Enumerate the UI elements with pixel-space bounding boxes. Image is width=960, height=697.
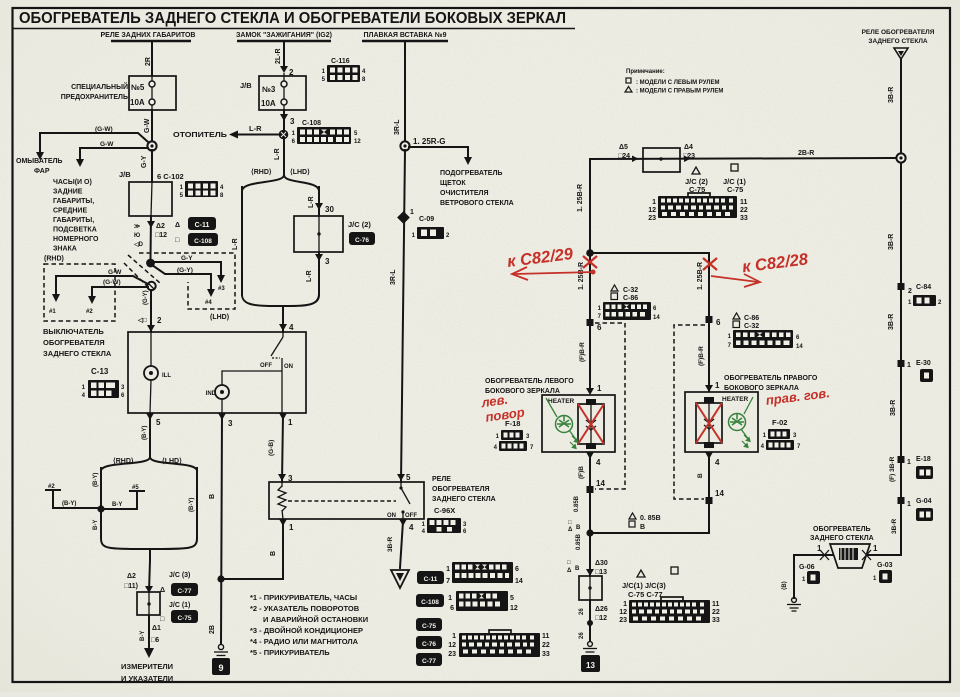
svg-text:(G-Y): (G-Y) [143, 290, 149, 305]
svg-text:◁□: ◁□ [137, 317, 147, 324]
svg-text:(F)B-R: (F)B-R [698, 346, 705, 366]
svg-text:6: 6 [716, 318, 721, 327]
svg-text:Δ1: Δ1 [152, 625, 161, 632]
svg-text:B: B [640, 524, 645, 531]
wire to #2 [92, 286, 148, 288]
svg-text:Δ26: Δ26 [595, 606, 608, 613]
svg-text:J/B: J/B [119, 170, 131, 179]
J/C(2)/J/C(1) C-75 connector top [648, 164, 748, 222]
wire G-W down from fuse [151, 110, 153, 141]
svg-text:23: 23 [619, 617, 627, 624]
below J/C(2) [318, 252, 320, 295]
svg-text:3: 3 [228, 419, 233, 428]
svg-text:ЧАСЫ(И О): ЧАСЫ(И О) [53, 179, 92, 186]
2B-R horizontal wire [590, 158, 896, 159]
connector icon C-108 (LHD) [175, 233, 218, 246]
connector C-13 [82, 367, 125, 399]
wire L-R down [283, 140, 285, 168]
wire down to J/C box [589, 533, 591, 576]
RHD dashed box [44, 264, 115, 321]
fuse element circles [151, 76, 153, 110]
svg-text:12: 12 [648, 207, 656, 214]
pin 1 right mirror [705, 385, 713, 392]
connector C-32/C-86 left [598, 285, 661, 321]
wire to #3 [152, 261, 221, 263]
svg-text:С-96Х: С-96Х [434, 506, 455, 515]
svg-text:B: B [209, 494, 216, 499]
svg-text:Δ5: Δ5 [619, 144, 628, 151]
switch contact [282, 332, 284, 337]
pin 5 arrow [146, 413, 154, 420]
red arrow right [711, 276, 758, 282]
junction ring washer branch [147, 141, 156, 150]
svg-text:3B-R: 3B-R [888, 87, 895, 103]
svg-text:7: 7 [446, 578, 450, 585]
svg-text:◁D: ◁D [133, 241, 144, 248]
svg-text:E-18: E-18 [916, 456, 931, 463]
svg-text:ЗАДНИЕ: ЗАДНИЕ [53, 189, 83, 196]
dashed link [288, 500, 396, 502]
wire below J/B №3 [283, 110, 285, 131]
connector icon C-11 [417, 562, 523, 585]
svg-text:6: 6 [597, 323, 602, 332]
svg-text:C-77: C-77 [422, 658, 436, 665]
svg-text:23: 23 [648, 215, 656, 222]
svg-text:(LHD): (LHD) [210, 314, 229, 321]
connector icon C-11 (RHD) [175, 217, 216, 230]
red text лев. повор [479, 390, 525, 426]
svg-text:HEATER: HEATER [548, 398, 575, 405]
svg-text:С-13: С-13 [91, 367, 109, 376]
wire to ground 13 [589, 600, 591, 641]
svg-text:#2: #2 [48, 484, 55, 490]
svg-text:ГАБАРИТЫ,: ГАБАРИТЫ, [53, 198, 94, 205]
red X right mirror wire [703, 258, 717, 270]
svg-text:1: 1 [873, 544, 878, 553]
relay pin 1 [279, 519, 287, 526]
svg-text:С-116: С-116 [331, 58, 350, 65]
svg-text:J/C (1): J/C (1) [169, 602, 190, 609]
svg-text:(G-W): (G-W) [95, 126, 113, 133]
svg-text:J/C (2): J/C (2) [348, 220, 371, 229]
wire continues to relay pin 5 [401, 150, 405, 482]
svg-text:11: 11 [740, 199, 748, 206]
svg-text:1: 1 [623, 601, 627, 608]
relay pin 4 wire 3B-R [399, 519, 407, 526]
pin 1 left mirror [586, 388, 594, 395]
svg-text:1. 25R-G: 1. 25R-G [413, 137, 445, 146]
svg-text:1: 1 [288, 418, 293, 427]
svg-text:13: 13 [586, 661, 595, 670]
svg-text:ЗАДНЕГО СТЕКЛА: ЗАДНЕГО СТЕКЛА [432, 496, 496, 503]
fuse №5 10A box [129, 76, 176, 110]
svg-text:2: 2 [157, 316, 162, 325]
svg-text:#4: #4 [205, 300, 212, 306]
svg-text:ЗАДНЕГО СТЕКЛА: ЗАДНЕГО СТЕКЛА [43, 349, 112, 358]
svg-text:№5: №5 [131, 83, 145, 92]
svg-text:12: 12 [448, 642, 456, 649]
svg-text:G-W: G-W [144, 118, 151, 133]
svg-text:С-108: С-108 [302, 120, 321, 127]
connector C-116 [322, 58, 366, 83]
svg-text:J/B: J/B [240, 81, 252, 90]
relay switch contact [400, 482, 402, 487]
svg-text:РЕЛЕ ЗАДНИХ ГАБАРИТОВ: РЕЛЕ ЗАДНИХ ГАБАРИТОВ [101, 32, 196, 39]
connector icon C-96X [422, 518, 467, 535]
svg-text:□: □ [567, 560, 571, 566]
connector C-102 [180, 181, 224, 199]
red text к С82/28 [741, 250, 810, 276]
svg-text:G-W: G-W [100, 141, 114, 148]
svg-text:□12: □12 [595, 615, 607, 622]
right branch (B-Y) [196, 468, 198, 537]
svg-text:(F)B: (F)B [578, 466, 585, 479]
svg-text:*2 - УКАЗАТЕЛЬ ПОВОРОТОВ: *2 - УКАЗАТЕЛЬ ПОВОРОТОВ [250, 604, 360, 613]
svg-text:1: 1 [652, 199, 656, 206]
svg-text:3R-L: 3R-L [394, 119, 401, 135]
ILL lamp [150, 332, 152, 366]
svg-text:G-04: G-04 [916, 498, 932, 505]
node: замок зажигания IG2 [236, 32, 332, 41]
svg-text:ПОДОГРЕВАТЕЛЬ: ПОДОГРЕВАТЕЛЬ [440, 170, 502, 177]
svg-text:□11): □11) [124, 583, 138, 590]
svg-text:1: 1 [907, 362, 911, 369]
svg-text:L-R: L-R [274, 148, 281, 160]
fuse J/B №3 10A box [259, 76, 306, 110]
svg-text:B: B [576, 525, 581, 531]
tap G-04 [898, 497, 905, 504]
branch to подогреватель щеток [409, 147, 468, 158]
svg-text:22: 22 [740, 207, 748, 214]
svg-text:ОБОГРЕВАТЕЛЬ: ОБОГРЕВАТЕЛЬ [813, 526, 871, 533]
svg-text:(B-Y): (B-Y) [62, 501, 76, 507]
right mirror pin 4 [705, 452, 713, 459]
svg-text:22: 22 [542, 642, 550, 649]
svg-text:6: 6 [515, 566, 519, 573]
svg-text:B: B [697, 473, 704, 478]
svg-text:0.85B: 0.85B [574, 495, 580, 512]
svg-text:G-Y: G-Y [181, 255, 193, 262]
relay coil [278, 486, 286, 511]
wire to #1 [56, 276, 148, 284]
svg-text:J/C(1) J/C(3): J/C(1) J/C(3) [622, 581, 666, 590]
1.25B-R wire down [589, 159, 591, 391]
svg-text:ВЕТРОВОГО СТЕКЛА: ВЕТРОВОГО СТЕКЛА [440, 200, 514, 207]
red arrow left [514, 272, 594, 274]
svg-text:26: 26 [579, 608, 585, 615]
svg-text:B: B [575, 566, 580, 572]
junction ring [147, 282, 155, 290]
svg-text:C-75: C-75 [177, 615, 191, 622]
svg-text:1: 1 [597, 384, 602, 393]
svg-text:ЗАДНЕГО СТЕКЛА: ЗАДНЕГО СТЕКЛА [810, 535, 874, 542]
junction ring 2B-R [896, 153, 905, 162]
wire to #4 [152, 265, 211, 274]
RHD branch [241, 187, 243, 295]
svg-text:Ю: Ю [134, 233, 140, 239]
svg-text:*4 - РАДИО ИЛИ МАГНИТОЛА: *4 - РАДИО ИЛИ МАГНИТОЛА [250, 637, 359, 646]
svg-text:СПЕЦИАЛЬНЫЙ: СПЕЦИАЛЬНЫЙ [71, 82, 128, 91]
svg-text:1: 1 [410, 209, 414, 216]
svg-text:1: 1 [907, 501, 911, 508]
svg-text:2: 2 [908, 288, 912, 295]
heating element [704, 397, 714, 403]
svg-text:11: 11 [542, 633, 550, 640]
svg-text:1: 1 [817, 544, 822, 553]
ground left [792, 598, 797, 603]
left mirror heater box [542, 395, 615, 452]
right mirror heater box [685, 392, 758, 452]
svg-text:C-108: C-108 [421, 599, 439, 606]
svg-text:OFF: OFF [260, 363, 272, 369]
svg-text:ЩЕТОК: ЩЕТОК [440, 180, 466, 187]
svg-text:*3 - ДВОЙНОЙ КОНДИЦИОНЕР: *3 - ДВОЙНОЙ КОНДИЦИОНЕР [250, 626, 363, 635]
svg-text:ILL: ILL [162, 373, 171, 379]
svg-text:14: 14 [653, 315, 660, 321]
svg-text:С-32: С-32 [623, 287, 638, 294]
svg-text:C-76: C-76 [422, 641, 436, 648]
svg-text:ОБОГРЕВАТЕЛЯ: ОБОГРЕВАТЕЛЯ [43, 338, 105, 347]
svg-text:L-R: L-R [249, 124, 262, 133]
svg-text:6: 6 [450, 605, 454, 612]
fusible link box on line [643, 148, 680, 172]
svg-text:ФАР: ФАР [34, 168, 50, 175]
svg-text:Δ2: Δ2 [156, 223, 165, 230]
svg-text:9: 9 [218, 663, 223, 673]
node: плавкая вставка №9 [362, 31, 448, 41]
svg-text:33: 33 [712, 617, 720, 624]
svg-text:⟨RHD⟩: ⟨RHD⟩ [251, 168, 272, 176]
svg-text:□13: □13 [595, 569, 607, 576]
svg-text:G-Y: G-Y [141, 155, 148, 168]
connector icon C-77 [416, 653, 442, 666]
svg-text:10А: 10А [130, 98, 145, 107]
J/C(2) box [294, 216, 343, 252]
svg-text:3B-R: 3B-R [891, 519, 898, 534]
red cross over element [578, 404, 604, 444]
big connector block C-75/76/77 [448, 630, 550, 658]
svg-text:□: □ [568, 520, 572, 526]
green lamp right [729, 397, 754, 447]
svg-text:(F) 3B-R: (F) 3B-R [889, 456, 896, 482]
node: реле обогревателя заднего стекла (top right) [862, 29, 935, 59]
svg-text:3B-R: 3B-R [888, 234, 895, 250]
svg-text:#3: #3 [218, 286, 225, 292]
wire 2R from relay bar down to fuse [151, 41, 153, 76]
svg-text:E-30: E-30 [916, 360, 931, 367]
svg-text:1: 1 [452, 633, 456, 640]
wire from right column to element [868, 554, 901, 556]
junction ring 1.25R-G [400, 141, 409, 150]
svg-text:(RHD): (RHD) [44, 256, 64, 263]
wire below J/B with markers [150, 216, 153, 259]
svg-text:Δ: Δ [568, 527, 573, 533]
svg-text:3: 3 [290, 117, 295, 126]
svg-text:Δ: Δ [567, 568, 572, 574]
svg-text:11: 11 [712, 601, 720, 608]
connector icon C-75 [416, 618, 442, 631]
heater element trapezoid [830, 544, 870, 568]
svg-text:1: 1 [446, 566, 450, 573]
svg-text:≫: ≫ [134, 224, 140, 230]
red text прав. гов. [765, 385, 831, 408]
0.85B horizontal to right mirror [590, 503, 709, 533]
junction to relay pin1 [217, 575, 224, 582]
connector C-108 [292, 127, 362, 145]
svg-text:26: 26 [579, 632, 585, 639]
svg-text:ПОДСВЕТКА: ПОДСВЕТКА [53, 227, 97, 234]
svg-text:ОБОГРЕВАТЕЛЬ ЗАДНЕГО СТЕКЛА И: ОБОГРЕВАТЕЛЬ ЗАДНЕГО СТЕКЛА И ОБОГРЕВАТЕ… [19, 10, 566, 27]
svg-text:4: 4 [596, 458, 601, 467]
IND lamp [222, 371, 282, 385]
svg-text:⟨LHD⟩: ⟨LHD⟩ [290, 168, 310, 176]
left branch B-Y [100, 468, 102, 537]
svg-text:1: 1 [907, 459, 911, 466]
svg-text:#5: #5 [132, 485, 139, 491]
rear defogger switch box [128, 332, 306, 413]
svg-text:ПРЕДОХРАНИТЕЛЬ: ПРЕДОХРАНИТЕЛЬ [61, 94, 128, 101]
svg-text:12: 12 [354, 139, 361, 145]
heating element [586, 399, 596, 405]
wire to измерители [148, 615, 150, 650]
svg-text:C-108: C-108 [194, 238, 212, 245]
svg-text:G-03: G-03 [877, 562, 893, 569]
ground 9 [218, 644, 223, 649]
green lamp [546, 398, 578, 448]
dashed LHD link left [595, 323, 625, 489]
J/B box left [129, 182, 172, 216]
svg-text:Δ30: Δ30 [595, 560, 608, 567]
svg-text:14: 14 [515, 578, 523, 585]
svg-text:С-86: С-86 [623, 295, 638, 302]
svg-text:СРЕДНИЕ: СРЕДНИЕ [53, 208, 87, 215]
svg-text:12: 12 [510, 605, 518, 612]
bottom middle J/C(1)/J/C(3) connector block [619, 567, 720, 624]
svg-text:3R-L: 3R-L [390, 269, 397, 285]
svg-text:C-11: C-11 [424, 576, 438, 583]
connector icon C-75 [171, 610, 198, 623]
svg-text:B: B [270, 551, 277, 556]
svg-text:(G-W): (G-W) [103, 279, 121, 286]
tap C-84 [898, 283, 905, 290]
svg-text:B-Y: B-Y [140, 631, 146, 641]
title underline [13, 28, 575, 30]
svg-text:С-84: С-84 [916, 284, 931, 291]
svg-text:ОЧИСТИТЕЛЯ: ОЧИСТИТЕЛЯ [440, 190, 488, 197]
svg-text:ГАБАРИТЫ,: ГАБАРИТЫ, [53, 217, 94, 224]
svg-text:4: 4 [409, 523, 414, 532]
svg-text:C-11: C-11 [195, 222, 210, 229]
tap E-18 [898, 456, 905, 463]
svg-text:33: 33 [542, 651, 550, 658]
connector icon C-76 [416, 636, 442, 649]
svg-text:1. 25B-R: 1. 25B-R [577, 184, 584, 212]
svg-text:□6: □6 [151, 637, 159, 644]
branch to омыватель фар [40, 133, 148, 142]
svg-text:30: 30 [325, 205, 334, 214]
svg-text:C-75: C-75 [422, 623, 436, 630]
svg-text:1. 25B-R: 1. 25B-R [697, 262, 704, 290]
wire G-Y into J/B [151, 150, 153, 182]
LHD dashed outline [139, 253, 235, 309]
svg-text:3B-R: 3B-R [387, 537, 394, 552]
junction dot [97, 505, 104, 512]
svg-text:14: 14 [796, 344, 803, 350]
svg-text:ЗАМОК "ЗАЖИГАНИЯ" (IG2): ЗАМОК "ЗАЖИГАНИЯ" (IG2) [236, 32, 332, 39]
svg-text:C-77: C-77 [177, 588, 191, 595]
svg-text:L-R: L-R [308, 196, 315, 208]
svg-text:Примечание:: Примечание: [626, 69, 665, 75]
svg-text:(G-Y): (G-Y) [177, 267, 193, 274]
svg-text:И УКАЗАТЕЛИ: И УКАЗАТЕЛИ [121, 674, 173, 683]
svg-text:(B-Y): (B-Y) [93, 473, 99, 487]
junction dot 0.85B [586, 529, 593, 536]
svg-text:1: 1 [715, 381, 720, 390]
svg-text:2R: 2R [145, 57, 152, 66]
svg-text:#1: #1 [49, 309, 56, 315]
svg-text:ОМЫВАТЕЛЬ: ОМЫВАТЕЛЬ [16, 158, 62, 165]
svg-text:С-09: С-09 [419, 216, 434, 223]
svg-text:IND: IND [206, 391, 217, 397]
connector bullet C-09 [397, 211, 410, 224]
svg-text:L-R: L-R [306, 270, 313, 282]
svg-text:5: 5 [406, 473, 411, 482]
#5 tap [130, 490, 144, 492]
node: реле задних габаритов [101, 32, 196, 41]
junction dot отопитель [279, 130, 289, 140]
svg-text:ВЫКЛЮЧАТЕЛЬ: ВЫКЛЮЧАТЕЛЬ [43, 327, 104, 336]
svg-text:HEATER: HEATER [722, 396, 749, 403]
svg-text:(B-Y): (B-Y) [142, 426, 148, 440]
svg-text:22: 22 [712, 609, 720, 616]
svg-text:B-Y: B-Y [93, 520, 99, 530]
svg-text:4: 4 [715, 458, 720, 467]
left mirror pin 4 [586, 452, 594, 459]
#2 tap [46, 489, 60, 491]
LHD branch via J/C(2) [318, 187, 320, 216]
svg-text:J/C (3): J/C (3) [169, 572, 190, 579]
svg-text:4: 4 [289, 323, 294, 332]
svg-text:(B-Y): (B-Y) [189, 498, 195, 512]
svg-text:(F)B-R: (F)B-R [579, 342, 586, 362]
J/C box bottom middle [579, 576, 602, 600]
svg-text:33: 33 [740, 215, 748, 222]
svg-text:Δ: Δ [175, 222, 180, 229]
svg-text:□24: □24 [618, 153, 630, 160]
svg-text:ON: ON [284, 364, 293, 370]
svg-text:3B-R: 3B-R [888, 314, 895, 330]
svg-text:№3: №3 [262, 85, 276, 94]
svg-text:: МОДЕЛИ С ПРАВЫМ РУЛЕМ: : МОДЕЛИ С ПРАВЫМ РУЛЕМ [636, 89, 723, 95]
wire down to switch pin 2 [150, 290, 152, 332]
svg-text:OFF: OFF [405, 513, 417, 519]
svg-text:ОБОГРЕВАТЕЛЯ: ОБОГРЕВАТЕЛЯ [432, 486, 490, 493]
svg-text:С-86: С-86 [744, 315, 759, 322]
X mark right [862, 550, 871, 560]
svg-text:C-76: C-76 [355, 237, 369, 244]
dashed LHD link right [674, 325, 705, 499]
merged wire to switch pin 4 [282, 306, 284, 332]
svg-text:С-75: С-75 [727, 185, 743, 194]
red text к С82/29 [506, 245, 575, 271]
branch junction to right mirror [586, 249, 594, 257]
svg-text:1: 1 [289, 523, 294, 532]
svg-text:2B: 2B [209, 625, 216, 634]
svg-text:: МОДЕЛИ С ЛЕВЫМ РУЛЕМ: : МОДЕЛИ С ЛЕВЫМ РУЛЕМ [636, 80, 719, 86]
svg-text:#2: #2 [86, 309, 93, 315]
red X left mirror wire [583, 256, 597, 268]
svg-text:1: 1 [448, 595, 452, 602]
